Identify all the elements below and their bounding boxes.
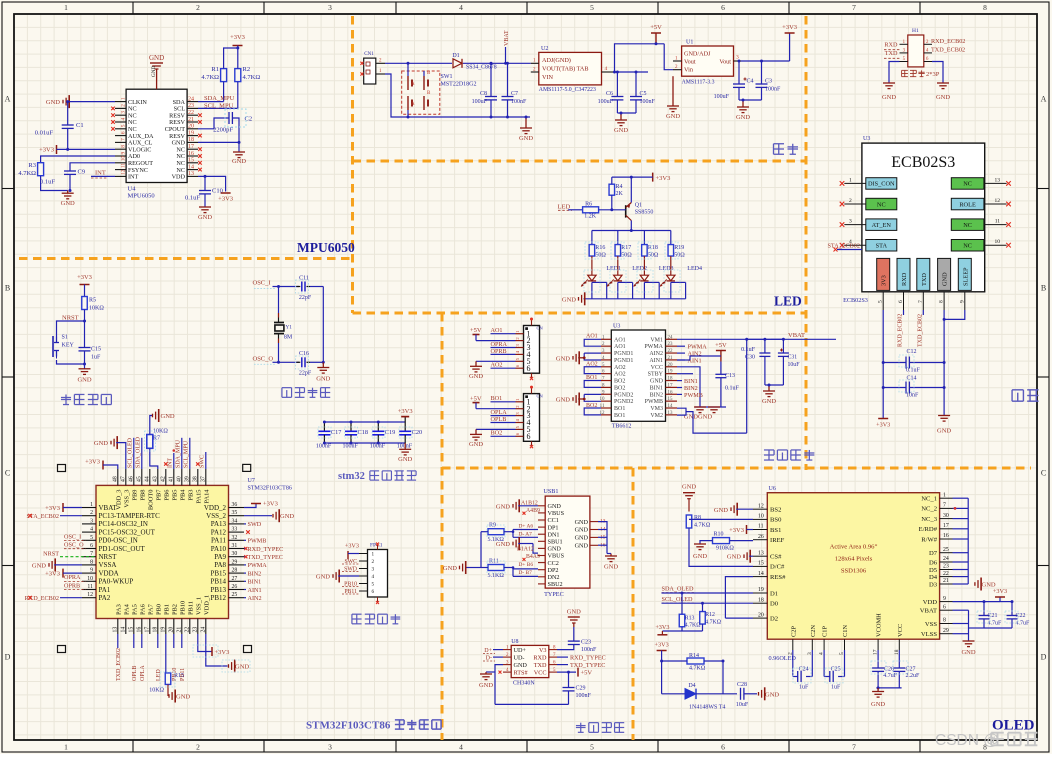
svg-text:4.7uF: 4.7uF: [883, 673, 898, 679]
svg-text:PB15: PB15: [210, 569, 226, 577]
svg-text:C11: C11: [299, 276, 309, 282]
svg-text:27: 27: [232, 576, 238, 582]
svg-text:C5: C5: [640, 91, 647, 97]
svg-text:R19: R19: [674, 245, 684, 251]
svg-text:22pF: 22pF: [299, 371, 312, 377]
svg-text:VSSA: VSSA: [99, 561, 117, 569]
svg-text:26: 26: [758, 534, 764, 540]
svg-text:OPLB: OPLB: [491, 416, 507, 423]
svg-text:B: B: [1041, 284, 1046, 293]
svg-text:19: 19: [160, 627, 166, 633]
svg-text:C28: C28: [737, 682, 747, 688]
svg-text:8: 8: [121, 145, 127, 148]
svg-text:PB14: PB14: [210, 578, 226, 586]
svg-text:24: 24: [200, 627, 206, 633]
svg-text:C1: C1: [76, 122, 84, 129]
svg-text:RXD_ECB02: RXD_ECB02: [931, 38, 965, 45]
svg-text:BO1: BO1: [491, 395, 503, 402]
svg-text:19: 19: [188, 130, 194, 136]
svg-text:16: 16: [188, 151, 194, 157]
svg-text:VCC: VCC: [534, 669, 547, 676]
svg-text:SWD: SWD: [248, 521, 262, 528]
svg-text:4.7KΩ: 4.7KΩ: [243, 74, 261, 81]
svg-text:17: 17: [943, 523, 949, 529]
svg-text:BS2: BS2: [770, 507, 781, 514]
svg-text:C29: C29: [576, 686, 586, 692]
svg-text:C13: C13: [725, 373, 735, 379]
svg-text:PA11: PA11: [211, 537, 227, 545]
svg-text:4: 4: [459, 3, 463, 12]
svg-text:1: 1: [121, 97, 127, 100]
svg-text:GND: GND: [650, 379, 664, 385]
svg-text:0.1uF: 0.1uF: [40, 179, 55, 186]
svg-text:10KΩ: 10KΩ: [89, 306, 104, 312]
svg-text:PB1: PB1: [163, 604, 170, 615]
svg-text:GND: GND: [151, 66, 157, 77]
svg-text:VSS_2: VSS_2: [206, 512, 226, 520]
svg-text:SCL_OLED: SCL_OLED: [128, 437, 134, 468]
svg-text:32: 32: [232, 535, 238, 541]
svg-text:C23: C23: [581, 640, 591, 646]
svg-text:18: 18: [758, 597, 764, 603]
svg-text:STA_ECB02: STA_ECB02: [827, 243, 860, 250]
svg-text:INT: INT: [95, 170, 106, 177]
svg-text:3: 3: [328, 3, 332, 12]
svg-text:PB9: PB9: [131, 490, 138, 501]
svg-text:22: 22: [184, 627, 190, 633]
svg-text:18: 18: [188, 137, 194, 143]
svg-text:RTS#: RTS#: [514, 669, 528, 676]
svg-text:A: A: [411, 102, 415, 107]
svg-text:TXD_TYPEC: TXD_TYPEC: [570, 662, 605, 669]
svg-text:Vout: Vout: [719, 59, 731, 66]
svg-text:100uF: 100uF: [598, 99, 614, 105]
svg-text:AIN2: AIN2: [248, 595, 262, 602]
svg-text:5: 5: [90, 535, 93, 541]
svg-text:5: 5: [878, 300, 884, 303]
svg-text:D- A7: D- A7: [519, 531, 533, 537]
svg-text:BOOT0: BOOT0: [147, 490, 154, 511]
svg-text:1: 1: [64, 3, 68, 12]
svg-text:1: 1: [90, 502, 93, 508]
svg-text:RXD_ECB02: RXD_ECB02: [898, 314, 904, 347]
svg-text:VBAT: VBAT: [788, 332, 805, 339]
svg-text:50Ω: 50Ω: [621, 252, 632, 258]
svg-text:GND: GND: [882, 94, 896, 101]
svg-text:3: 3: [849, 219, 852, 225]
svg-text:6: 6: [527, 432, 531, 441]
svg-text:AIN1: AIN1: [248, 587, 262, 594]
svg-text:3: 3: [372, 567, 375, 573]
svg-text:R5: R5: [89, 298, 96, 304]
svg-text:D4: D4: [929, 574, 938, 581]
svg-text:14: 14: [668, 404, 674, 409]
svg-text:1uF: 1uF: [831, 685, 841, 691]
svg-text:GND: GND: [469, 373, 483, 380]
svg-text:16: 16: [943, 533, 949, 539]
svg-text:6: 6: [898, 300, 904, 303]
svg-text:SW1: SW1: [441, 74, 453, 80]
svg-text:S1: S1: [62, 335, 68, 341]
svg-text:0.1uF: 0.1uF: [741, 347, 756, 353]
svg-text:+3V3: +3V3: [782, 24, 797, 31]
svg-text:10nF: 10nF: [906, 393, 919, 399]
svg-text:GND: GND: [479, 682, 493, 689]
svg-text:C18: C18: [358, 429, 369, 436]
svg-text:U8: U8: [511, 639, 518, 645]
svg-text:C17: C17: [331, 429, 342, 436]
svg-text:GND: GND: [280, 513, 294, 520]
svg-text:VM3: VM3: [650, 406, 663, 412]
svg-text:D7: D7: [929, 550, 938, 557]
svg-text:R11: R11: [489, 559, 499, 565]
svg-text:GND: GND: [149, 54, 164, 62]
svg-text:11: 11: [995, 219, 1001, 225]
svg-text:48: 48: [112, 476, 118, 482]
svg-text:D: D: [1041, 653, 1047, 662]
svg-text:+3V3: +3V3: [218, 196, 233, 203]
svg-text:CS#: CS#: [770, 554, 782, 561]
svg-text:PB5: PB5: [171, 490, 178, 501]
svg-text:NC_2: NC_2: [921, 506, 937, 513]
svg-text:RXD_TYPEC: RXD_TYPEC: [248, 546, 284, 553]
svg-text:SDA_MPU: SDA_MPU: [204, 95, 235, 102]
svg-text:CN: CN: [537, 394, 544, 399]
svg-text:STM32F103CT86: STM32F103CT86: [306, 720, 391, 732]
svg-text:SWC: SWC: [200, 455, 206, 468]
svg-text:+3V3: +3V3: [230, 34, 245, 41]
svg-text:NRST: NRST: [43, 550, 59, 557]
svg-text:VOUT(TAB) TAB: VOUT(TAB) TAB: [542, 66, 589, 73]
svg-text:21: 21: [176, 627, 182, 633]
svg-text:1: 1: [64, 743, 68, 752]
svg-text:AIN2: AIN2: [649, 351, 663, 357]
svg-text:C6: C6: [606, 91, 613, 97]
svg-text:+3V3: +3V3: [45, 571, 60, 578]
svg-text:18: 18: [152, 627, 158, 633]
svg-text:GND: GND: [61, 200, 75, 207]
svg-text:19: 19: [758, 587, 764, 593]
svg-text:U7: U7: [248, 478, 255, 484]
svg-text:KEY: KEY: [62, 343, 75, 349]
svg-text:7: 7: [852, 3, 856, 12]
svg-text:NC_3: NC_3: [921, 516, 937, 523]
svg-text:GND: GND: [161, 413, 175, 420]
svg-text:2: 2: [849, 198, 852, 204]
svg-text:CC2: CC2: [548, 560, 559, 567]
svg-text:CH340N: CH340N: [513, 681, 535, 687]
svg-text:U3: U3: [613, 324, 620, 330]
svg-text:D6: D6: [929, 559, 938, 566]
svg-text:PGND2: PGND2: [614, 399, 633, 405]
svg-text:SCL_MPU: SCL_MPU: [204, 102, 234, 109]
svg-text:C21: C21: [988, 613, 998, 619]
svg-text:910KΩ: 910KΩ: [716, 546, 734, 552]
svg-text:3: 3: [121, 111, 127, 114]
svg-text:2: 2: [121, 104, 127, 107]
svg-text:4: 4: [90, 527, 93, 533]
svg-text:D5: D5: [929, 567, 938, 574]
svg-text:Q1: Q1: [635, 203, 642, 209]
svg-text:ROLE: ROLE: [959, 201, 976, 208]
svg-text:100uF: 100uF: [714, 94, 730, 100]
svg-text:C7: C7: [511, 91, 518, 97]
svg-text:PA15: PA15: [195, 490, 202, 504]
svg-text:RXD: RXD: [901, 272, 908, 286]
svg-text:C20: C20: [412, 429, 423, 436]
svg-text:C22: C22: [1016, 613, 1026, 619]
svg-text:GND: GND: [232, 158, 246, 165]
svg-text:4: 4: [605, 66, 608, 72]
svg-text:+3V3: +3V3: [85, 459, 100, 466]
svg-text:BIN2: BIN2: [650, 392, 663, 398]
svg-text:20: 20: [668, 363, 674, 368]
svg-text:8: 8: [939, 300, 945, 303]
svg-text:NC: NC: [877, 201, 886, 208]
svg-text:+3V3: +3V3: [656, 175, 671, 182]
svg-text:AO1: AO1: [614, 337, 626, 343]
svg-text:MPU6050: MPU6050: [297, 240, 355, 255]
svg-text:7: 7: [918, 300, 924, 303]
svg-text:R14: R14: [689, 653, 699, 659]
svg-text:SSD1306: SSD1306: [841, 568, 867, 575]
svg-text:USB1: USB1: [543, 488, 558, 495]
svg-text:+3V3: +3V3: [45, 505, 60, 512]
svg-text:1.2K: 1.2K: [584, 214, 597, 220]
svg-text:Vout: Vout: [684, 59, 696, 66]
svg-text:D-: D-: [486, 656, 492, 662]
svg-text:A1B12: A1B12: [521, 501, 538, 507]
svg-text:GND: GND: [316, 376, 330, 383]
svg-text:+3V3: +3V3: [655, 642, 669, 649]
svg-text:TB6612: TB6612: [612, 424, 632, 430]
svg-text:100nF: 100nF: [511, 99, 527, 105]
svg-text:PB8: PB8: [139, 490, 146, 501]
svg-text:C24: C24: [799, 667, 809, 673]
svg-text:+5V: +5V: [581, 670, 593, 677]
svg-text:44: 44: [144, 476, 150, 482]
svg-text:A: A: [411, 82, 415, 87]
svg-text:AMS1117-3.3: AMS1117-3.3: [682, 80, 715, 86]
svg-text:B1A12: B1A12: [517, 547, 534, 553]
svg-text:GND: GND: [614, 127, 628, 134]
svg-text:GND: GND: [496, 503, 510, 510]
svg-text:R7: R7: [153, 436, 160, 442]
svg-text:U6: U6: [769, 486, 776, 492]
svg-text:23: 23: [188, 103, 194, 109]
svg-text:OPRB: OPRB: [64, 582, 80, 589]
svg-text:B: B: [5, 284, 10, 293]
svg-text:25: 25: [943, 547, 949, 553]
svg-text:PB0: PB0: [155, 604, 162, 615]
svg-text:GND: GND: [235, 664, 249, 671]
svg-text:24: 24: [188, 96, 194, 102]
svg-text:VLSS: VLSS: [921, 631, 937, 638]
svg-text:13: 13: [112, 627, 118, 633]
svg-text:4.7KΩ: 4.7KΩ: [685, 623, 701, 629]
svg-text:10uF: 10uF: [736, 702, 749, 708]
svg-text:15: 15: [668, 397, 674, 402]
svg-text:BO1: BO1: [614, 406, 625, 412]
svg-text:AO2: AO2: [614, 365, 626, 371]
svg-text:6: 6: [943, 604, 946, 610]
svg-text:PB6: PB6: [163, 490, 170, 501]
svg-text:GND: GND: [514, 662, 528, 669]
svg-text:OSC_O: OSC_O: [253, 355, 274, 362]
svg-text:12: 12: [121, 169, 127, 175]
svg-text:6: 6: [721, 743, 725, 752]
svg-text:D2: D2: [770, 615, 778, 622]
svg-text:1: 1: [372, 552, 375, 558]
svg-text:0.96OLED: 0.96OLED: [769, 655, 797, 662]
svg-text:R13: R13: [685, 616, 695, 622]
svg-text:C1P: C1P: [822, 626, 829, 637]
svg-text:+3V3: +3V3: [215, 649, 230, 656]
svg-text:29: 29: [943, 628, 949, 634]
svg-text:GND: GND: [762, 398, 776, 405]
svg-text:0.1uF: 0.1uF: [906, 368, 921, 374]
svg-text:100nF: 100nF: [581, 647, 597, 653]
svg-text:BIN1: BIN1: [650, 385, 663, 391]
svg-text:R/W#: R/W#: [921, 536, 937, 543]
svg-text:C14: C14: [907, 376, 917, 382]
svg-text:PA4: PA4: [123, 603, 130, 615]
svg-text:PA12: PA12: [211, 528, 227, 536]
svg-text:BO2: BO2: [614, 385, 625, 391]
svg-text:GND: GND: [316, 574, 330, 581]
svg-text:GND: GND: [548, 503, 562, 510]
svg-text:TXD_ECB02: TXD_ECB02: [917, 314, 923, 347]
svg-text:NC: NC: [963, 181, 972, 188]
svg-text:R3: R3: [28, 162, 36, 169]
svg-text:C27: C27: [906, 667, 916, 673]
svg-text:C9: C9: [78, 169, 86, 176]
svg-text:19: 19: [668, 370, 674, 375]
svg-text:28: 28: [232, 568, 238, 574]
svg-text:34: 34: [232, 518, 238, 524]
svg-text:STBY: STBY: [648, 372, 664, 378]
svg-text:10: 10: [758, 514, 764, 520]
svg-text:SCL_OLED: SCL_OLED: [662, 596, 693, 603]
svg-text:PWMB: PWMB: [684, 392, 703, 399]
svg-text:GNDGND: GNDGND: [684, 413, 712, 420]
svg-text:2: 2: [196, 3, 200, 12]
svg-text:PWMA: PWMA: [644, 344, 663, 350]
svg-text:LED: LED: [774, 294, 802, 309]
svg-text:2: 2: [90, 510, 93, 516]
svg-text:MPU6050: MPU6050: [128, 193, 155, 200]
svg-text:RES#: RES#: [770, 574, 786, 581]
svg-text:14: 14: [758, 571, 764, 577]
svg-text:GND: GND: [556, 355, 570, 362]
svg-text:5: 5: [372, 582, 375, 588]
svg-text:LED4: LED4: [687, 266, 702, 272]
svg-text:VDD: VDD: [172, 174, 186, 181]
svg-text:PA0-WKUP: PA0-WKUP: [99, 578, 134, 586]
svg-text:0.01uF: 0.01uF: [35, 130, 54, 137]
svg-text:MST22D18G2: MST22D18G2: [441, 82, 477, 88]
svg-text:C26: C26: [884, 667, 894, 673]
svg-text:100nF: 100nF: [576, 693, 592, 699]
svg-text:D- B7: D- B7: [519, 570, 533, 576]
svg-text:VDDA: VDDA: [99, 569, 119, 577]
svg-text:10: 10: [121, 156, 127, 162]
svg-text:30: 30: [943, 513, 949, 519]
svg-text:AO2: AO2: [491, 362, 503, 369]
svg-text:15: 15: [128, 627, 134, 633]
svg-text:15: 15: [188, 158, 194, 164]
svg-text:PB2: PB2: [171, 604, 178, 615]
svg-text:2K: 2K: [616, 191, 624, 197]
svg-text:VSS_3: VSS_3: [123, 490, 130, 508]
svg-text:TXD: TXD: [921, 273, 928, 286]
svg-text:PWMB: PWMB: [645, 399, 663, 405]
svg-text:SBU1: SBU1: [548, 539, 563, 546]
svg-text:13: 13: [758, 550, 764, 556]
svg-text:2200pF: 2200pF: [213, 127, 233, 134]
svg-text:D+: D+: [484, 648, 492, 654]
svg-text:+3V3: +3V3: [263, 501, 278, 508]
svg-text:VDD_3: VDD_3: [115, 490, 122, 510]
svg-text:6: 6: [372, 589, 375, 595]
svg-text:VM1: VM1: [650, 337, 663, 343]
svg-text:C12: C12: [907, 349, 917, 355]
svg-text:22: 22: [188, 110, 194, 116]
svg-text:26: 26: [232, 584, 238, 590]
svg-text:OSC_I: OSC_I: [253, 280, 271, 287]
svg-text:1: 1: [943, 492, 946, 498]
svg-text:C8: C8: [480, 91, 487, 97]
svg-text:1uF: 1uF: [799, 685, 809, 691]
svg-text:PA9: PA9: [214, 553, 226, 561]
svg-text:NC: NC: [963, 243, 972, 250]
svg-text:A4B9: A4B9: [526, 508, 540, 514]
svg-text:14: 14: [188, 164, 194, 170]
svg-text:1: 1: [849, 177, 852, 183]
svg-text:GND: GND: [94, 440, 108, 447]
svg-text:23: 23: [192, 627, 198, 633]
svg-text:AMS1117-5.0_C347223: AMS1117-5.0_C347223: [539, 87, 596, 93]
svg-text:R10: R10: [714, 532, 724, 538]
svg-text:R12: R12: [705, 612, 715, 618]
svg-text:PA3: PA3: [115, 604, 122, 615]
svg-text:GND/ADJ: GND/ADJ: [684, 51, 711, 58]
svg-text:0.1uF: 0.1uF: [185, 195, 200, 202]
svg-text:50Ω: 50Ω: [595, 252, 606, 258]
svg-text:DN2: DN2: [548, 574, 560, 581]
svg-text:PA7: PA7: [147, 603, 154, 615]
svg-text:100nF: 100nF: [765, 87, 781, 93]
svg-text:GND: GND: [198, 214, 212, 221]
svg-text:PC15-OSC32_OUT: PC15-OSC32_OUT: [99, 528, 156, 536]
svg-text:C3: C3: [765, 79, 772, 85]
svg-text:RXD: RXD: [533, 654, 547, 661]
svg-text:D/C#: D/C#: [770, 564, 785, 571]
svg-text:R2: R2: [243, 66, 251, 73]
svg-text:4.7KΩ: 4.7KΩ: [705, 620, 721, 626]
svg-text:GND: GND: [575, 535, 589, 542]
svg-text:GND: GND: [871, 701, 885, 708]
svg-text:BO2: BO2: [491, 430, 503, 437]
svg-text:+3V3: +3V3: [876, 422, 890, 429]
svg-text:U4: U4: [128, 186, 137, 193]
svg-text:PB7: PB7: [155, 489, 162, 501]
svg-text:VIN: VIN: [542, 74, 554, 81]
svg-text:BIN2: BIN2: [248, 570, 262, 577]
svg-text:6: 6: [121, 131, 127, 134]
svg-text:VBAT: VBAT: [920, 608, 937, 615]
svg-text:GND: GND: [727, 554, 741, 561]
